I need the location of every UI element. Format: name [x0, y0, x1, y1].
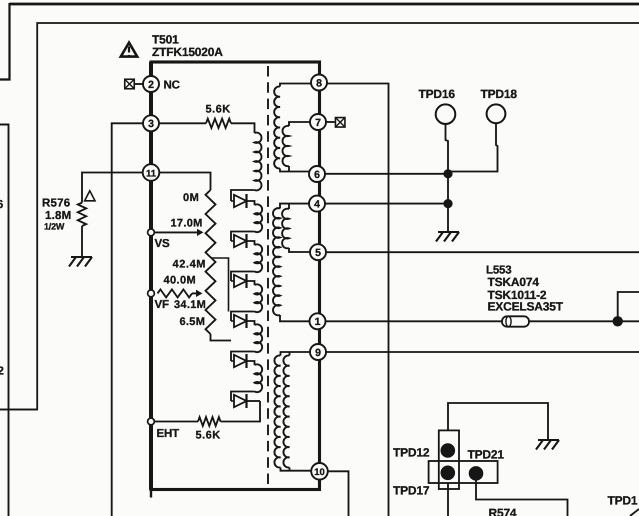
wire diode D1 cathode to next winding	[247, 201, 255, 205]
ground under R576	[69, 257, 92, 267]
wire winding C bottom to pin1	[280, 315, 310, 321]
svg-text:5.6K: 5.6K	[206, 104, 231, 116]
wire TPD18 down	[448, 123, 498, 171]
connector block TPD17/TPD21 (horizontal)	[429, 461, 498, 483]
winding primary segment 5	[255, 324, 263, 352]
resistor 5.6K (top)	[206, 119, 231, 128]
test point TPD18 circle	[487, 104, 506, 123]
wire primary seg5 bottom lead	[231, 352, 255, 362]
wire diode D3 cathode to next winding	[247, 281, 255, 285]
wire EHT right	[155, 421, 199, 423]
resistor focus string (vertical)	[206, 190, 216, 334]
wire VF arrow	[192, 292, 197, 294]
svg-text:TPD21: TPD21	[468, 448, 505, 462]
wire diode D2 cathode to next winding	[247, 241, 255, 245]
svg-text:5.6K: 5.6K	[196, 430, 221, 442]
svg-text:TPD12: TPD12	[393, 446, 430, 460]
svg-text:17.0M: 17.0M	[171, 218, 203, 230]
winding secondary E right column (9-10)	[283, 355, 289, 467]
wire diode D5 cathode to next winding	[247, 361, 255, 365]
wire pin8 to winding A	[280, 84, 311, 87]
svg-text:NC: NC	[164, 80, 180, 92]
wire top border	[10, 3, 639, 6]
test point TPD16 circle	[436, 104, 456, 124]
node VF circle	[148, 290, 155, 297]
winding primary segment 4	[255, 284, 263, 312]
svg-text:EHT: EHT	[157, 428, 180, 440]
inductor L553 bead	[502, 316, 529, 326]
wire diode D5 anode	[231, 360, 234, 362]
terminal mark pin 7 (boxed X)	[335, 118, 345, 128]
wire winding E bottom to pin10	[281, 468, 312, 471]
pin 10	[311, 463, 328, 480]
wire diode D4 anode	[231, 320, 234, 322]
svg-text:2: 2	[0, 366, 4, 378]
wire pin4 to winding C	[280, 204, 309, 209]
pin 6	[309, 166, 325, 182]
svg-text:1.8M: 1.8M	[45, 210, 71, 222]
wire R576 to ground	[81, 226, 83, 256]
arrow VF tap	[196, 290, 203, 297]
transformer T501 body outline	[151, 62, 320, 490]
svg-text:TPD17: TPD17	[393, 484, 430, 498]
wire focus string bottom	[211, 334, 232, 341]
pin 3	[143, 115, 159, 131]
svg-text:VS: VS	[155, 238, 170, 250]
pin 4	[309, 196, 325, 212]
svg-text:10: 10	[314, 467, 325, 478]
wire diode D6 anode	[231, 400, 234, 402]
component fragment bottom-right corner	[630, 509, 639, 516]
wire pin7 to NC mark	[326, 121, 335, 123]
diode D2 (EHT chain)	[234, 235, 247, 247]
wire primary seg3 bottom lead	[231, 272, 255, 282]
svg-text:R574: R574	[489, 506, 517, 516]
svg-text:2: 2	[148, 79, 154, 91]
svg-text:5: 5	[315, 247, 321, 259]
winding secondary A (8-6)	[274, 86, 280, 168]
wire branch up from junction	[618, 292, 639, 321]
pin 11	[143, 164, 160, 181]
wire pin2 to NC mark	[135, 83, 144, 85]
arrow VS tap	[197, 229, 204, 236]
winding primary segment 3	[255, 244, 263, 272]
wire pin9 right	[326, 351, 639, 353]
svg-text:8: 8	[316, 77, 322, 89]
wire winding D bottom to pin5	[289, 248, 310, 252]
wire pin4 right	[325, 203, 448, 205]
wire diode D1 anode	[231, 200, 234, 202]
svg-text:3: 3	[148, 118, 154, 130]
svg-text:ZTFK15020A: ZTFK15020A	[152, 45, 223, 59]
wire stub below transformer corner	[150, 489, 152, 498]
junction pin1 wire branch	[613, 316, 623, 326]
wire pin6 right	[325, 173, 448, 175]
svg-text:42.4M: 42.4M	[173, 259, 207, 271]
winding secondary C (4-1)	[273, 208, 280, 315]
warning symbol (safety triangle)	[121, 43, 137, 57]
wire pin11 left	[82, 173, 143, 203]
svg-text:1: 1	[315, 316, 321, 328]
diode D4 (EHT chain)	[234, 315, 247, 327]
wire diode D4 cathode to next winding	[247, 321, 255, 325]
resistor R576	[78, 203, 86, 226]
svg-text:1/2W: 1/2W	[44, 222, 65, 232]
test point TPD21 pad	[469, 466, 484, 481]
svg-text:TPD18: TPD18	[481, 87, 518, 101]
wire VS arrow	[155, 231, 198, 233]
terminal mark pin 2 (boxed X)	[125, 79, 135, 89]
wire pin9 lead to winding E right column	[289, 352, 291, 356]
winding primary segment 1	[255, 133, 262, 191]
svg-text:34.1M: 34.1M	[174, 299, 206, 311]
wire diode D3 anode	[231, 280, 234, 282]
pin 7	[310, 114, 326, 130]
wire pin3 left to vertical bus	[112, 123, 143, 516]
svg-text:4: 4	[314, 198, 320, 210]
transformer left column (thick)	[149, 62, 153, 490]
node EHT circle	[148, 418, 155, 425]
svg-text:6.5M: 6.5M	[180, 316, 206, 328]
wire winding E right column bottom	[289, 468, 291, 471]
ground near TPD12	[536, 440, 559, 450]
resistor 5.6K (EHT)	[198, 417, 221, 426]
winding primary segment 2	[255, 204, 263, 232]
wire left edge vertical	[0, 125, 9, 516]
wire inner frame	[0, 23, 639, 410]
wire left border upper segment	[0, 3, 10, 80]
wire pin9 to winding E	[281, 352, 311, 356]
wire 5.6K to diode chain	[221, 401, 261, 422]
svg-text:9: 9	[315, 347, 321, 359]
wire pin4 lead to winding D	[288, 204, 290, 209]
wire pin3 right lead	[159, 122, 206, 124]
wire tap 42.4M	[211, 258, 229, 312]
diode D6 (EHT chain)	[234, 395, 247, 407]
junction TPD16/pin4	[443, 199, 452, 208]
diode D1 (EHT chain)	[234, 195, 247, 207]
wire pin1 right	[326, 320, 639, 322]
wire winding B bottom	[288, 166, 290, 172]
safety mark triangle at R576	[85, 191, 95, 201]
wire diode D6 cathode	[247, 400, 261, 402]
resistor VF tap	[158, 289, 193, 297]
svg-text:11: 11	[146, 168, 157, 179]
wire horizontal exit left	[0, 409, 37, 411]
diode D3 (EHT chain)	[234, 275, 247, 287]
wire primary seg4 bottom lead	[231, 312, 255, 322]
ground under TPD16	[436, 232, 459, 242]
svg-text:6: 6	[0, 199, 3, 211]
wire TPD12 to ground	[448, 403, 548, 439]
svg-text:EXCELSA35T: EXCELSA35T	[488, 300, 564, 314]
diode D5 (EHT chain)	[234, 355, 247, 367]
wire pin8 right	[327, 84, 389, 516]
svg-text:TPD16: TPD16	[419, 87, 456, 101]
wire pin11 right to focus string	[159, 173, 211, 191]
svg-text:VF: VF	[155, 299, 169, 311]
svg-text:R576: R576	[42, 198, 70, 210]
wire TPD21 down right	[476, 480, 568, 516]
svg-text:7: 7	[315, 117, 321, 129]
test point TPD17 pad	[441, 466, 456, 481]
wire pin5 right	[326, 251, 639, 253]
svg-text:0M: 0M	[183, 192, 199, 204]
winding secondary D (4-5)	[282, 209, 289, 249]
wire primary seg6 bottom lead	[231, 392, 255, 402]
wire 5.6K to primary winding	[231, 123, 255, 133]
wire pin7 to winding B	[289, 122, 310, 126]
pin 9	[310, 344, 326, 360]
winding primary segment 6	[255, 364, 263, 392]
pin 5	[310, 244, 326, 260]
svg-text:6: 6	[314, 169, 320, 181]
wire winding A bottom to pin6	[280, 169, 310, 172]
test point TPD12 pad	[441, 443, 456, 458]
svg-text:TPD1: TPD1	[608, 494, 638, 508]
junction TPD16/pin6	[443, 169, 452, 178]
pin 1	[310, 313, 326, 329]
wire TPD16 down	[446, 124, 449, 232]
wire TPD17 down	[447, 483, 449, 516]
winding secondary E left column (9-10)	[274, 355, 280, 467]
pin 8	[311, 75, 327, 91]
wire primary seg1 bottom lead	[231, 190, 255, 201]
svg-text:40.0M: 40.0M	[164, 275, 197, 287]
transformer core (dashed)	[267, 66, 269, 488]
wire diode D2 anode	[231, 240, 234, 242]
connector block TPD12/TPD17 (vertical)	[439, 430, 459, 489]
pin 2	[143, 76, 159, 92]
node VS circle	[148, 229, 155, 236]
wire primary seg2 bottom lead	[231, 232, 255, 242]
wire pin10 right	[328, 471, 349, 516]
winding secondary B (7-6)	[283, 126, 289, 166]
